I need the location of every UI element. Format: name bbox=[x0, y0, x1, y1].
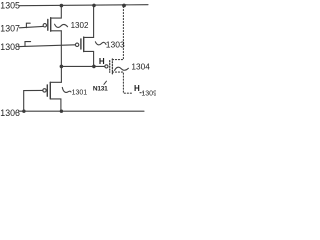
wire: 1302 source down through node N131 to 1301 drain bbox=[60, 31, 62, 83]
dashed transistor 1304 gate bar bbox=[109, 61, 111, 73]
transistor 1303 gate bar bbox=[80, 39, 82, 49]
junction dots on node N131 bbox=[60, 65, 64, 69]
transistor 1301 gate wire down to bottom rail bbox=[24, 90, 43, 111]
input line 1308 bbox=[20, 45, 76, 47]
svg-text:1304: 1304 bbox=[131, 61, 150, 71]
dashed transistor 1304 gate bubble bbox=[105, 65, 108, 68]
transistor 1301 gate bubble bbox=[43, 89, 46, 92]
junction dots on bottom rail bbox=[22, 110, 25, 113]
node N131 wire bbox=[61, 65, 104, 67]
svg-text:1308: 1308 bbox=[0, 42, 20, 52]
transistor 1302 source arm bbox=[51, 30, 62, 32]
step mark on line 1308 bbox=[25, 42, 31, 47]
dashed transistor 1304 channel bar bbox=[111, 59, 113, 74]
wire: 1303 source riser to top rail bbox=[84, 5, 94, 37]
svg-text:H: H bbox=[134, 84, 140, 93]
junction dots on top rail bbox=[60, 4, 64, 8]
power line 1305 (top rail) bbox=[20, 5, 149, 6]
svg-text:N131: N131 bbox=[93, 86, 108, 93]
input line 1307 bbox=[20, 26, 43, 27]
svg-text:1307: 1307 bbox=[0, 24, 20, 34]
transistor 1301 source arm and riser to bottom rail bbox=[50, 99, 61, 111]
squiggle leader to label 1302 bbox=[55, 24, 68, 27]
transistor 1301 drain arm bbox=[50, 81, 61, 83]
step mark on line 1307 bbox=[26, 23, 30, 28]
svg-text:1305: 1305 bbox=[0, 0, 20, 10]
svg-text:1301: 1301 bbox=[72, 90, 88, 97]
transistor 1303 drain arm and riser to node N131 bbox=[84, 51, 94, 66]
squiggle leader to label 1304 bbox=[115, 67, 129, 70]
transistor 1301 gate bar bbox=[46, 85, 48, 96]
squiggle leader to label 1301 bbox=[62, 87, 71, 92]
svg-text:1306: 1306 bbox=[0, 108, 20, 118]
svg-text:1303: 1303 bbox=[106, 39, 125, 49]
transistor 1302 gate bubble bbox=[43, 24, 46, 27]
squiggle leader to label 1303 bbox=[95, 42, 106, 45]
dashed wire: 1304 top arm and riser to top rail bbox=[112, 6, 123, 60]
transistor 1303 gate bubble bbox=[75, 43, 78, 46]
transistor 1303 channel bar bbox=[83, 37, 85, 52]
svg-text:H: H bbox=[99, 57, 105, 66]
transistor 1302 gate bar bbox=[47, 19, 49, 30]
transistor 1302 channel bar bbox=[50, 18, 52, 32]
leader line for N131 bbox=[104, 81, 107, 84]
wire: 1302 drain riser to top rail bbox=[51, 6, 62, 19]
dashed wire: 1304 bottom arm down to H (1309) bbox=[112, 72, 131, 93]
transistor 1301 channel bar bbox=[49, 82, 51, 99]
power line 1306 (bottom rail) bbox=[19, 110, 145, 112]
svg-text:1309: 1309 bbox=[141, 90, 156, 97]
dash before label 1309 bbox=[140, 92, 143, 94]
svg-text:1302: 1302 bbox=[71, 21, 89, 30]
